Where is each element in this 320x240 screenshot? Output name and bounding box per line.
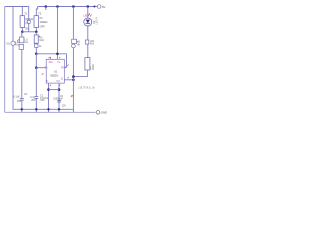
- pin number 8: [59, 57, 60, 58]
- svg-text:25V: 25V: [31, 99, 36, 102]
- junction dot rail x74: [72, 5, 75, 8]
- node C3 bus dot: [21, 108, 23, 110]
- junction dot rail x88.6: [87, 5, 90, 8]
- wire node B to U1 Th: [36, 67, 46, 69]
- node A junction dot right: [35, 31, 38, 34]
- wire AM6 to R4: [87, 44, 89, 58]
- wire bottom pins horizontal: [49, 89, 60, 91]
- pin number 5: [59, 85, 60, 86]
- node A junction dot left: [21, 31, 24, 34]
- wire column R1 top: [21, 7, 23, 16]
- node Tr dot: [47, 88, 50, 91]
- wire column x13 upper: [12, 7, 14, 42]
- svg-text:CV: CV: [56, 79, 60, 83]
- svg-text:GND: GND: [101, 111, 107, 115]
- pin number 3: [67, 77, 68, 78]
- wire left rail top: [5, 6, 29, 8]
- node C1 bus dot: [35, 108, 37, 110]
- junction dot rail x45: [45, 5, 48, 8]
- probe box AM5: [72, 39, 77, 43]
- node V+ dot: [56, 53, 59, 56]
- wire V+ stub into U1: [56, 54, 58, 60]
- svg-text:25V: 25V: [40, 99, 45, 102]
- wire Dis stub: [49, 57, 51, 60]
- label AM5: [77, 43, 80, 46]
- terminal 9V: [97, 5, 105, 9]
- wire column x21.8 below node A: [21, 32, 23, 37]
- wire column x28.7 from left rail: [28, 7, 30, 21]
- resistor R4: [85, 58, 90, 70]
- red tick AM3: [17, 39, 19, 41]
- red tick near Tr: [42, 73, 44, 75]
- wire column x13 lower: [13, 45, 73, 109]
- svg-text:LED-R: LED-R: [96, 17, 99, 25]
- label D1 rotated: [93, 17, 99, 25]
- junction dot rail x94.4: [93, 6, 95, 8]
- wire LED top: [87, 7, 89, 19]
- svg-text:T2: T2: [38, 11, 42, 15]
- ammeter probe AM1: [11, 41, 15, 45]
- wire R3 bottom stub: [35, 42, 37, 45]
- svg-text:U1: U1: [54, 70, 58, 74]
- node B junction dot: [35, 66, 38, 69]
- wire C3 bottom: [21, 100, 23, 112]
- capacitor C3: [20, 99, 24, 101]
- label R4 rotated: [89, 64, 95, 70]
- wire RST loop: [64, 54, 66, 68]
- svg-text:Dis: Dis: [49, 60, 54, 64]
- svg-text:1.B.70*6.5,.3s: 1.B.70*6.5,.3s: [78, 87, 95, 90]
- probe box AM4: [35, 44, 38, 47]
- tick R3: [39, 36, 40, 37]
- label C1 value left: [30, 96, 36, 102]
- svg-text:330Ω: 330Ω: [92, 64, 95, 70]
- svg-text:9V: 9V: [102, 5, 106, 9]
- svg-text:LED: LED: [83, 13, 88, 17]
- wire bottom rail: [5, 111, 96, 113]
- probe box AM3 lower: [19, 44, 23, 49]
- svg-text:12V: 12V: [62, 104, 67, 107]
- wire CV pin down: [58, 83, 60, 95]
- wire Tr pin down: [48, 83, 50, 112]
- wire x72.9 to bottom rail: [72, 80, 74, 113]
- op-amp U1 555 body: [46, 59, 64, 83]
- LED D1: [84, 18, 92, 26]
- wire R2 top from rail corner: [36, 7, 37, 16]
- label AM1 value right: [15, 41, 20, 47]
- node Q dot: [72, 79, 75, 82]
- wire x57.5 drop to V+: [57, 7, 59, 54]
- wire R3 top stub: [35, 32, 37, 35]
- svg-text:OFF: OFF: [40, 24, 46, 28]
- wire C1 bottom: [35, 98, 37, 112]
- wire R1 bottom stub: [21, 27, 23, 31]
- label R3: [39, 37, 44, 43]
- junction dot rail x57.5: [56, 5, 59, 8]
- label AM6: [90, 40, 95, 45]
- wire to node V: [35, 47, 37, 53]
- node CV dot: [58, 88, 61, 91]
- node V junction dot: [35, 53, 38, 56]
- label AM3 right: [24, 38, 28, 43]
- ground terminal GND: [96, 111, 107, 115]
- capacitor C4: [57, 101, 61, 103]
- wire R4 bottom corner to Q net: [73, 70, 87, 77]
- svg-text:Tr: Tr: [46, 79, 49, 83]
- wire R2 bottom stub: [35, 27, 37, 31]
- wire column x36.3 mid: [35, 54, 37, 68]
- label C3 value left: [14, 95, 22, 103]
- probe box AM6: [85, 40, 89, 44]
- wire LED to AM6: [87, 26, 89, 40]
- pin number 4: [67, 65, 68, 66]
- tick AM5: [77, 41, 78, 42]
- svg-text:463: 463: [90, 42, 95, 45]
- node LED junction dot: [72, 75, 75, 78]
- svg-text:V+: V+: [57, 60, 61, 64]
- svg-text:1kΩ: 1kΩ: [39, 39, 44, 42]
- probe box AM3 upper: [19, 37, 24, 43]
- resistor R3: [34, 35, 38, 43]
- svg-text:NE555: NE555: [50, 74, 58, 77]
- wire column x21.8 to C3: [21, 49, 23, 98]
- pin number 7: [49, 57, 50, 58]
- wire column x36.3 to C1: [35, 68, 37, 97]
- node CV bus dot: [58, 108, 60, 110]
- label C1 value right: [40, 94, 49, 102]
- svg-text:0.1uF: 0.1uF: [14, 95, 21, 98]
- wire Q stub: [64, 79, 73, 81]
- node Tr bus dot: [47, 108, 49, 110]
- svg-text:100kΩ: 100kΩ: [40, 20, 48, 24]
- wire node A horizontal: [22, 31, 36, 33]
- wire x72.9 down from circle: [72, 48, 74, 80]
- wire right rail top: [38, 6, 98, 8]
- wire x74 drop: [72, 7, 74, 40]
- label C4 block: [53, 95, 66, 107]
- red arrows LED: [88, 14, 91, 17]
- resistor R2: [34, 16, 39, 28]
- svg-text:5Ω: 5Ω: [6, 42, 10, 46]
- wire left border column: [4, 7, 6, 113]
- svg-text:mA: mA: [24, 41, 28, 44]
- wire node V to U1 V+: [36, 53, 66, 55]
- svg-text:Th: Th: [44, 65, 48, 69]
- ammeter probe AM2: [27, 20, 30, 23]
- red current arrow bottom: [71, 95, 73, 97]
- terminal circle OUT: [72, 44, 76, 48]
- wire below AM2: [28, 23, 30, 32]
- resistor R1: [20, 16, 25, 28]
- wire x45 stub: [45, 7, 47, 11]
- pin number 2: [50, 85, 51, 86]
- svg-text:Q: Q: [61, 77, 63, 81]
- wire CV column to rail: [58, 95, 60, 112]
- svg-text:25V: 25V: [17, 100, 22, 103]
- capacitor C1: [34, 97, 38, 99]
- svg-text:T1: T1: [24, 11, 28, 15]
